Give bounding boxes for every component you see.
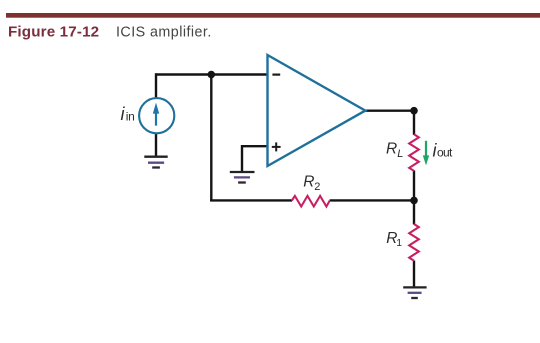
label R2: [303, 174, 320, 193]
wire feedback vertical: [210, 75, 212, 202]
i_out arrow: [423, 141, 429, 166]
current source I_in circle: [139, 98, 174, 133]
wire noninverting input: [242, 146, 268, 171]
svg-text:ICIS amplifier.: ICIS amplifier.: [116, 25, 212, 41]
wire RL top stub: [413, 110, 415, 135]
op-amp minus sign: [272, 73, 280, 75]
wire top horizontal (source to inverting input): [155, 73, 267, 75]
wire feedback horizontal right: [330, 199, 416, 201]
wire source bottom to ground: [155, 133, 157, 156]
wire R1 bottom stub: [413, 261, 415, 287]
current source arrow: [153, 103, 159, 126]
wire R1 top stub: [413, 199, 415, 224]
svg-text:L: L: [397, 148, 403, 160]
wire source top vertical: [155, 73, 157, 99]
svg-text:Figure 17-12: Figure 17-12: [8, 24, 99, 41]
wire op-amp output: [365, 109, 414, 111]
svg-text:R: R: [386, 141, 397, 158]
wire feedback horizontal left: [210, 199, 292, 201]
label i_in: [121, 104, 135, 124]
svg-text:1: 1: [396, 237, 402, 249]
label RL: [386, 141, 403, 160]
svg-text:out: out: [437, 146, 453, 160]
label R1: [386, 230, 402, 249]
resistor R2: [292, 196, 330, 207]
node junction dot (inverting input): [208, 71, 216, 79]
node junction dot (feedback/RL/R1): [410, 197, 418, 205]
node junction dot (output): [410, 107, 418, 115]
ground (below R1): [403, 287, 426, 298]
label i_out: [433, 140, 453, 160]
ground (below current source): [144, 157, 167, 168]
svg-text:i: i: [121, 104, 126, 124]
svg-text:R: R: [303, 174, 314, 191]
op-amp U1 triangle: [268, 55, 366, 166]
resistor R1: [409, 224, 419, 261]
top rule: [6, 13, 540, 18]
resistor RL: [409, 134, 419, 171]
op-amp plus sign: [272, 142, 281, 151]
ground (noninverting input): [230, 172, 255, 183]
wire RL bottom stub: [413, 171, 415, 201]
svg-text:2: 2: [314, 181, 320, 193]
svg-text:in: in: [126, 110, 135, 124]
